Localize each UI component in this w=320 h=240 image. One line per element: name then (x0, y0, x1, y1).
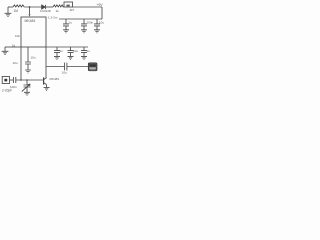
wire: output line from U1 bottom (46, 46, 88, 48)
switch S1 box (64, 2, 73, 7)
arrowhead into U1 (29, 14, 31, 16)
capacitor C3 (94, 19, 100, 33)
wire: top rail segment 4 (62, 6, 65, 8)
svg-text:4k7: 4k7 (70, 8, 75, 12)
svg-text:1N4148: 1N4148 (40, 9, 51, 13)
wire: speaker line right part (67, 66, 88, 68)
wire: supply drop into U1 pin (29, 7, 31, 14)
wire: vertical x46 collector node (45, 47, 47, 78)
capacitor C8 from U1 bottom pin (25, 47, 31, 73)
speaker LS1 (88, 63, 97, 71)
S1 inner mark (66, 5, 69, 7)
svg-text:100n: 100n (87, 21, 94, 25)
wire: ground line left of U1 (5, 46, 21, 48)
wire: top rail segment 5 (73, 6, 103, 8)
svg-text:MK484: MK484 (25, 19, 36, 23)
resistor R1 zigzag (53, 5, 63, 7)
wire: speaker line left part (46, 66, 64, 68)
svg-text:+9V: +9V (97, 3, 104, 7)
wire: left vertical from U1 bottom-left (20, 47, 22, 81)
capacitor C6 (81, 47, 87, 59)
wire: base line (16, 79, 44, 81)
svg-text:1u: 1u (87, 49, 91, 53)
wire: top rail left segment (8, 6, 13, 8)
inductor L1 zigzag (13, 5, 24, 7)
svg-text:1k: 1k (56, 9, 60, 13)
capacitor C5 (68, 47, 74, 59)
IC U1 box (21, 17, 46, 47)
diode D1 (42, 5, 46, 9)
node junction at x27 (26, 79, 28, 81)
microphone MIC1 box (2, 77, 9, 84)
svg-text:10u: 10u (31, 55, 36, 59)
wire: top rail segment 3 (46, 6, 53, 8)
svg-text:1.2-3m: 1.2-3m (48, 15, 58, 19)
svg-text:10u: 10u (62, 71, 67, 75)
svg-text:2-20pF: 2-20pF (2, 88, 12, 92)
svg-text:1u: 1u (60, 49, 64, 53)
svg-text:10k: 10k (15, 34, 20, 38)
wire: top rail segment 2 (24, 6, 41, 8)
capacitor C7 series (65, 63, 67, 71)
transistor Q1 (44, 77, 50, 90)
ground GND1 top-left (5, 7, 12, 16)
svg-text:MK484: MK484 (50, 77, 60, 81)
svg-text:1k: 1k (12, 43, 16, 47)
node A junction dot (29, 6, 31, 8)
variable capacitor VC1 (22, 80, 31, 95)
capacitor C9 series (13, 77, 15, 83)
svg-text:1u: 1u (69, 21, 73, 25)
svg-text:10u: 10u (99, 21, 104, 25)
ground GND2 (2, 47, 9, 54)
wire: mic to C9 (10, 79, 14, 81)
capacitor C1 (63, 19, 69, 33)
capacitor C4 (54, 47, 60, 59)
svg-text:10u: 10u (73, 49, 78, 53)
svg-text:1M: 1M (14, 9, 19, 13)
wire: supply bus (59, 18, 102, 20)
wire: right rail down (101, 7, 103, 19)
capacitor C2 (81, 19, 87, 33)
svg-text:10u: 10u (13, 61, 18, 65)
node junction at x21 (20, 79, 22, 81)
